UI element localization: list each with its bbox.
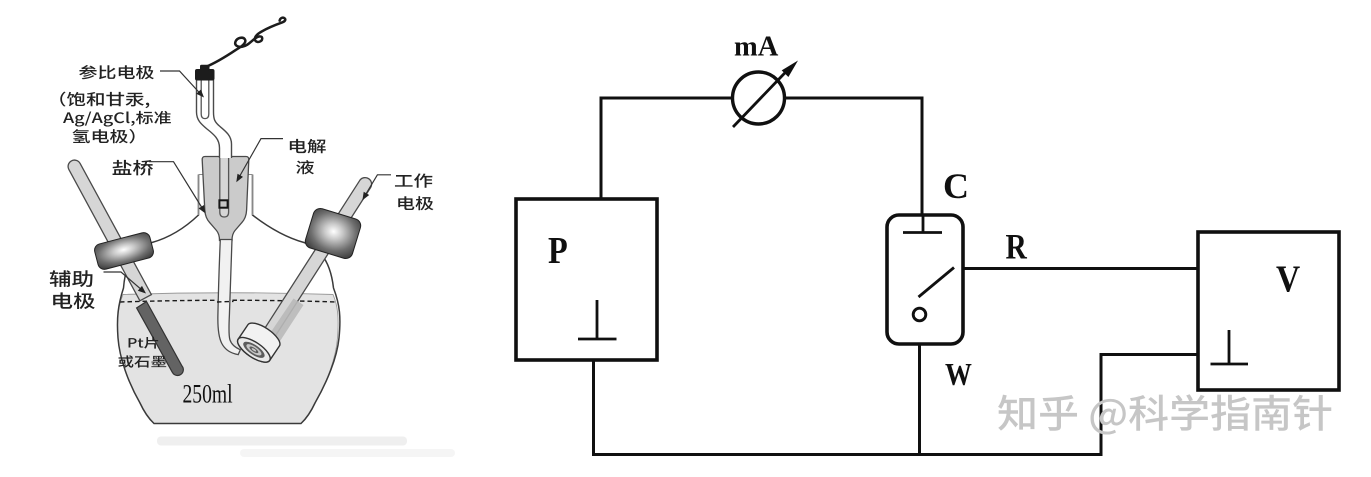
svg-text:mA: mA [734, 32, 779, 63]
svg-text:V: V [1276, 258, 1300, 300]
svg-text:C: C [943, 166, 969, 206]
svg-text:W: W [945, 358, 972, 393]
svg-text:250ml: 250ml [183, 380, 233, 410]
svg-text:P: P [548, 230, 568, 272]
svg-text:R: R [1006, 228, 1028, 267]
